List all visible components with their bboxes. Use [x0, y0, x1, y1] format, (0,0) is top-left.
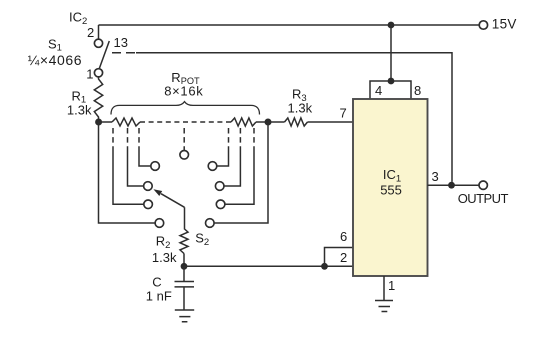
- svg-text:2: 2: [87, 25, 94, 40]
- wire: right outer to position 4: [214, 122, 268, 223]
- wire: pin 3 to OUTPUT: [428, 184, 479, 186]
- contact: S2 right position 4: [206, 219, 215, 228]
- resistor R3: [285, 118, 308, 126]
- svg-text:15V: 15V: [492, 17, 517, 32]
- svg-text:4: 4: [375, 83, 382, 98]
- svg-text:6: 6: [340, 229, 347, 244]
- contact: S2 right position 3: [216, 200, 225, 209]
- wire: pin 6 bracket: [325, 248, 354, 267]
- contact: S2 right position 1: [208, 162, 217, 171]
- ground (below C): [175, 310, 194, 322]
- terminal OUTPUT: [479, 181, 487, 189]
- wire: tap stub 1 left (dashed then solid): [138, 128, 140, 150]
- wire: dot to RPOT left resistor: [99, 121, 113, 123]
- contact: S2 left position 4: [155, 219, 164, 228]
- wire: R2 to C node: [183, 254, 185, 267]
- svg-text:2: 2: [340, 250, 347, 265]
- svg-text:8×16k: 8×16k: [164, 84, 203, 99]
- wire: feedback control line to output: [136, 53, 452, 182]
- wire: R3 to pin 7: [308, 121, 354, 123]
- wire: capacitor to ground: [183, 287, 185, 310]
- resistor RPOT left element: [112, 118, 140, 126]
- svg-text:3: 3: [432, 169, 439, 184]
- wire: C node to 555 pin 2: [184, 265, 353, 267]
- wire: pin 1 to ground: [383, 276, 385, 300]
- IC U1 555 body: [353, 99, 428, 276]
- wire: pins 4/8 bridge: [370, 81, 411, 99]
- svg-text:1 nF: 1 nF: [146, 288, 172, 303]
- switch S1 pin 2 contact: [94, 39, 102, 47]
- switch S1 pin 1 contact: [94, 69, 102, 77]
- svg-text:IC2: IC2: [69, 9, 87, 27]
- resistor R2: [180, 229, 188, 254]
- svg-text:1.3k: 1.3k: [152, 250, 177, 265]
- svg-text:555: 555: [380, 182, 402, 197]
- contact: S2 left position 3: [144, 200, 153, 209]
- wire: 15V top rail: [99, 24, 480, 26]
- wire: tap stub 2 left (dashed then solid): [127, 128, 129, 150]
- svg-text:OUTPUT: OUTPUT: [458, 191, 509, 206]
- wire: center tap dashed stub: [183, 128, 185, 150]
- svg-text:7: 7: [340, 106, 347, 121]
- resistor RPOT right element: [231, 118, 256, 126]
- svg-text:S2: S2: [195, 230, 209, 247]
- contact: S2 center position: [180, 151, 189, 160]
- node: R2 / C / pin2 junction: [181, 263, 188, 270]
- node: left end of RPOT: [95, 119, 102, 126]
- svg-text:1: 1: [86, 66, 93, 81]
- node: bridge center junction: [388, 78, 395, 85]
- wire: RPOT dashed continuation: [140, 121, 231, 123]
- svg-text:8: 8: [414, 83, 421, 98]
- wire: C node down to capacitor: [183, 266, 185, 281]
- capacitor C: [175, 282, 195, 287]
- node: output junction: [448, 182, 455, 189]
- svg-text:1: 1: [388, 278, 395, 293]
- wire: pin13 control dashed segment: [112, 52, 136, 54]
- wire: left outer to position 4: [99, 122, 156, 223]
- wire: wiper down to R2: [183, 207, 186, 228]
- svg-text:C: C: [152, 274, 161, 289]
- terminal 15V: [479, 21, 487, 29]
- contact: S2 left position 2: [144, 182, 153, 191]
- brace for RPOT: [111, 102, 260, 115]
- svg-text:¼×4066: ¼×4066: [28, 52, 83, 68]
- wire: tap stub 2 right (dashed then solid): [239, 128, 241, 150]
- node: right end of RPOT: [265, 119, 272, 126]
- svg-text:1.3k: 1.3k: [67, 103, 92, 118]
- wire: pin2 circle up to rail: [98, 25, 100, 39]
- wire: RPOT right to node: [256, 121, 268, 123]
- resistor R1: [94, 77, 102, 122]
- svg-text:R2: R2: [156, 234, 171, 251]
- switch S2 wiper arm: [161, 194, 185, 208]
- wire: junction down to pins 4/8 bridge: [390, 25, 392, 81]
- svg-text:S1: S1: [48, 36, 62, 53]
- wire: node to R3: [268, 121, 285, 123]
- node: rail to VCC junction: [388, 22, 395, 29]
- wire: tap stub 3 right (dashed then solid): [253, 128, 255, 150]
- wire: tap stub 3 left (dashed then solid): [112, 128, 114, 150]
- contact: S2 left position 1: [151, 162, 160, 171]
- svg-text:1.3k: 1.3k: [288, 101, 313, 116]
- node: pin2/pin6 junction: [321, 263, 328, 270]
- switch S1 arm: [99, 41, 109, 68]
- contact: S2 right position 2: [215, 182, 224, 191]
- ground (below 555): [375, 301, 393, 312]
- switch S2 wiper arrowhead: [153, 189, 162, 196]
- svg-text:13: 13: [114, 35, 128, 50]
- wire: tap stub 1 right (dashed then solid): [228, 128, 230, 150]
